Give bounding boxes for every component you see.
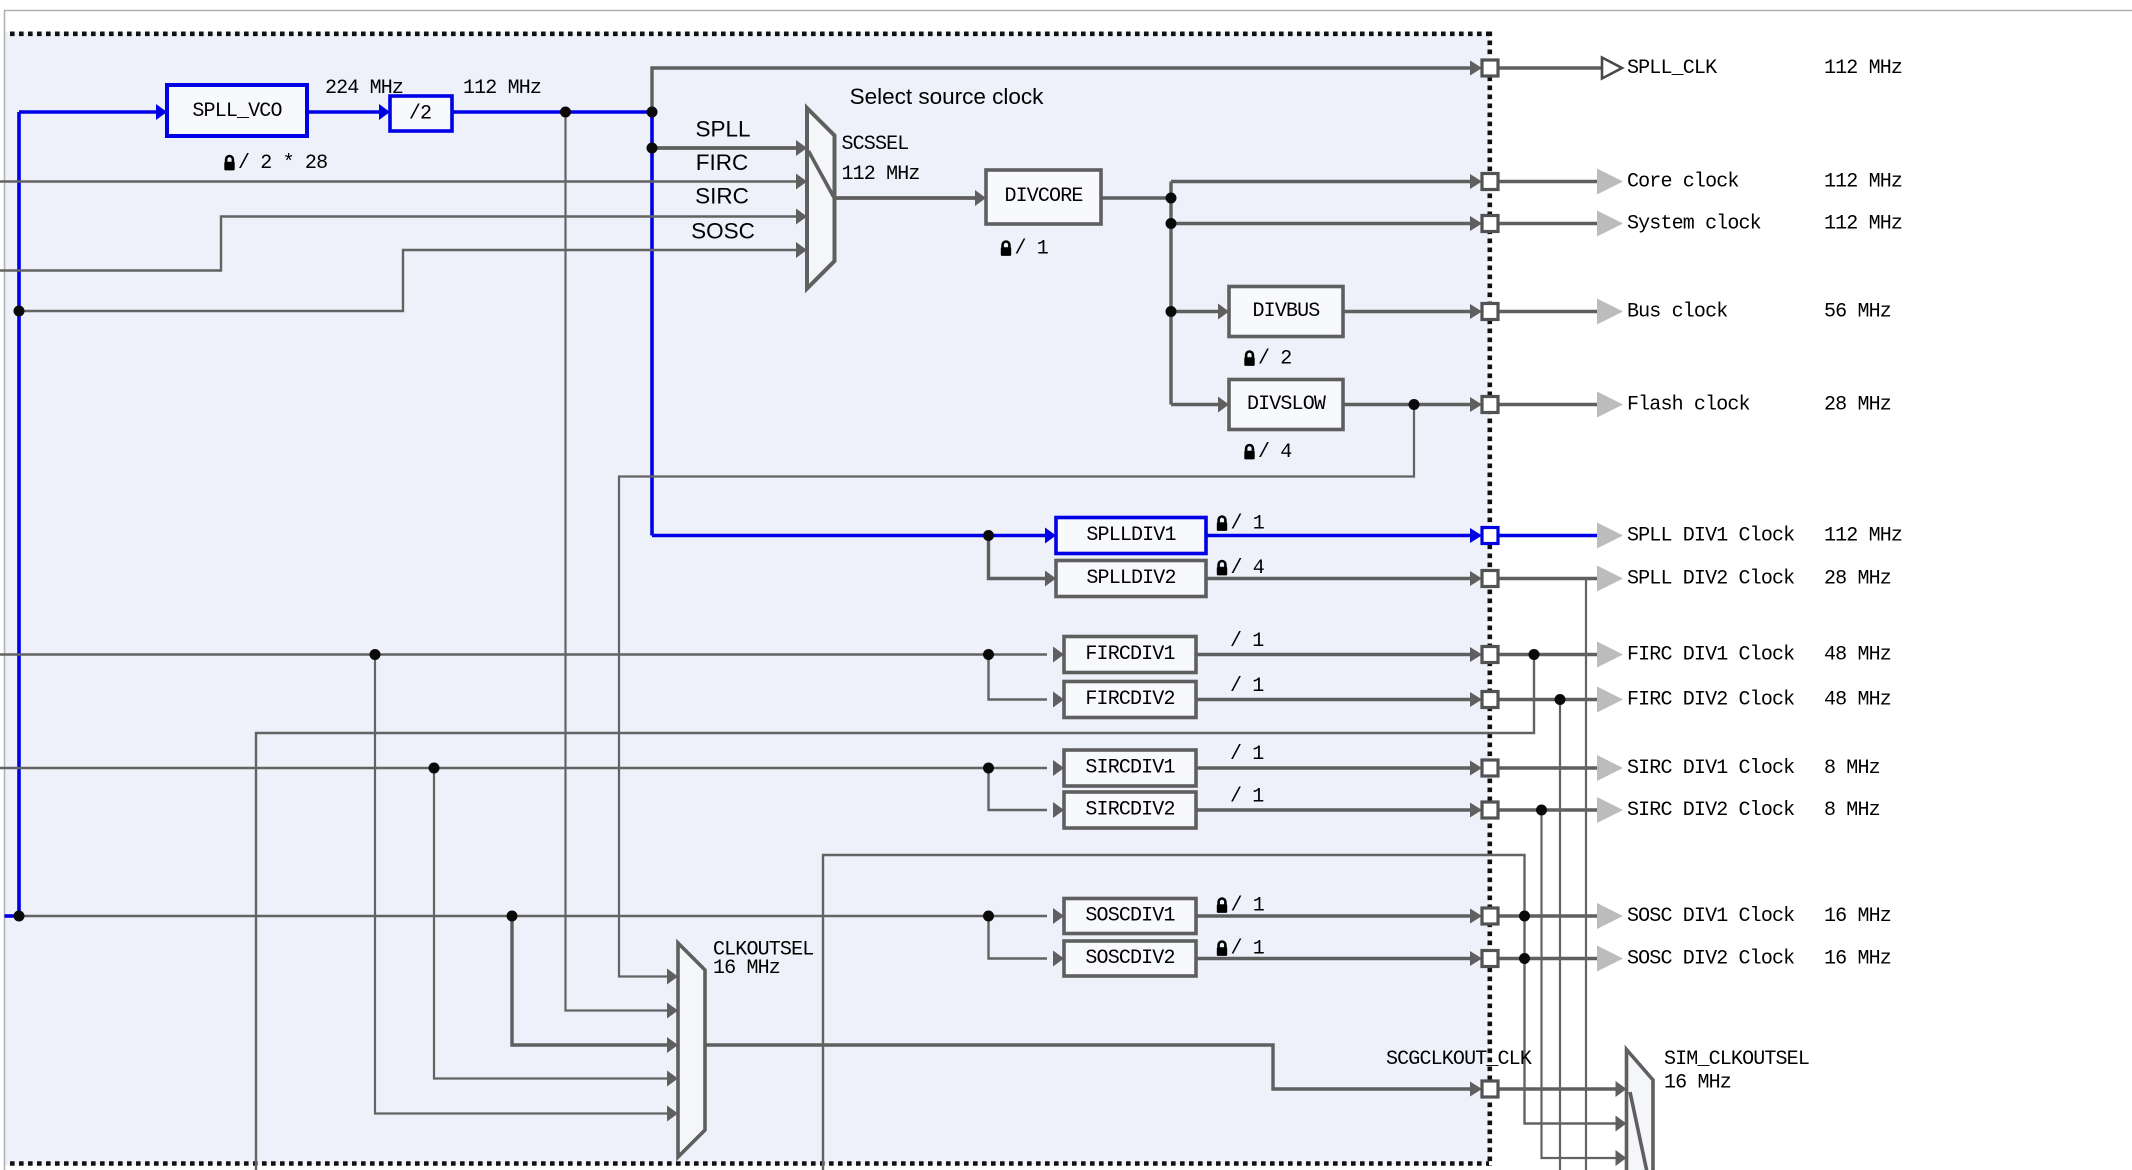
svg-text:/ 4: / 4 (1231, 557, 1264, 580)
svg-text:8 MHz: 8 MHz (1824, 799, 1880, 822)
arrow into SPLLDIV1 (1045, 528, 1056, 544)
junction dot (1534,654.5) (1529, 649, 1540, 660)
lock SOSCDIV1 / 1 (1219, 899, 1226, 905)
arrow SCSSEL input SIRC (796, 209, 807, 225)
svg-text:Flash clock: Flash clock (1627, 394, 1750, 417)
svg-text:112 MHz: 112 MHz (1824, 57, 1902, 80)
wire SPLL DIV2 Clock after boundary (1498, 577, 1598, 580)
arrow output Flash clock (1597, 392, 1623, 418)
arrow into DIVCORE (975, 190, 986, 206)
arrow into SPLLDIV2 (1045, 571, 1056, 587)
wire SPLL_VCO to /2 divider (307, 110, 381, 114)
boundary crossing square FIRC DIV1 Clock (1482, 647, 1498, 663)
svg-text:/ 1: / 1 (1230, 675, 1264, 698)
arrow output SOSC DIV1 Clock (1597, 903, 1623, 929)
wire blue SOSC-to-SPLL_VCO vertical (17, 112, 21, 916)
block SOSCDIV1 (1064, 899, 1196, 934)
junction dot (1524.5,958.5) (1519, 953, 1530, 964)
svg-text:8 MHz: 8 MHz (1824, 757, 1880, 780)
block /2 divider (390, 96, 452, 131)
arrow output SIRC DIV1 Clock (1597, 755, 1623, 781)
boundary crossing square SIRC DIV1 Clock (1482, 760, 1498, 776)
svg-text:SIRCDIV1: SIRCDIV1 (1085, 757, 1175, 780)
wire FIRCDIV1 output (1196, 653, 1471, 656)
svg-text:SOSC DIV2 Clock: SOSC DIV2 Clock (1627, 948, 1794, 971)
arrow into FIRCDIV2 (1053, 692, 1064, 708)
svg-text:Select source clock: Select source clock (850, 84, 1045, 109)
block SOSCDIV2 (1064, 941, 1196, 976)
svg-text:FIRC: FIRC (696, 150, 749, 175)
arrow into DIVBUS (1218, 304, 1229, 320)
mux SCSSEL select diagonal (809, 151, 835, 198)
wire branch to SIRCDIV2 (989, 768, 1048, 810)
arrow output SPLL DIV2 Clock (1597, 566, 1623, 592)
arrow SCSSEL input SOSC (796, 242, 807, 258)
block FIRCDIV2 (1064, 682, 1196, 718)
wire SPLL_CLK tap (652, 68, 1471, 112)
lock DIVSLOW / 4 (1246, 445, 1253, 451)
junction dot (19,311) (14, 306, 25, 317)
arrow into boundary SPLL DIV1 Clock (1470, 528, 1482, 543)
junction dot (512,916) (507, 911, 518, 922)
block SPLLDIV2 (1056, 561, 1206, 597)
arrow output Bus clock (1597, 299, 1623, 325)
arrow SCSSEL input FIRC (796, 174, 807, 190)
wire SPLLDIV2 output (1206, 577, 1471, 580)
block DIVSLOW (1229, 380, 1343, 430)
junction dot (1171,223.5) (1166, 218, 1177, 229)
svg-text:112 MHz: 112 MHz (1824, 171, 1902, 194)
mux CLKOUTSEL (678, 943, 705, 1157)
block DIVCORE (986, 170, 1101, 224)
arrow output SPLL DIV1 Clock (1597, 523, 1623, 549)
svg-text:FIRCDIV1: FIRCDIV1 (1085, 643, 1175, 666)
wire SPLL_CLK after boundary (1498, 66, 1602, 69)
svg-text:/ 2: / 2 (1258, 348, 1291, 371)
junction dot (652,112) (647, 107, 658, 118)
wire SCSSEL output to DIVCORE (835, 196, 977, 200)
arrow into boundary SIRC DIV1 Clock (1470, 761, 1482, 776)
arrow CLKOUTSEL input 1 (667, 969, 678, 985)
junction dot (1171,198) (1166, 193, 1177, 204)
boundary crossing square SPLL_CLK (1482, 60, 1498, 76)
wire SIRC to SCSSEL mux (0, 217, 797, 271)
wire SOSCDIV2 output (1196, 957, 1471, 960)
block DIVBUS (1229, 287, 1343, 337)
arrow into DIVSLOW (1218, 397, 1229, 413)
wire /2 output 112 MHz (452, 110, 652, 114)
wire SOSC feed (19, 915, 1047, 917)
svg-text:16 MHz: 16 MHz (713, 957, 780, 980)
arrow into SIRCDIV2 (1053, 802, 1064, 818)
lock SPLLDIV2 / 4 (1219, 561, 1226, 567)
wire FIRC to SCSSEL mux (0, 180, 797, 182)
wire SPLL to SCSSEL mux (652, 146, 797, 150)
svg-text:112 MHz: 112 MHz (1824, 525, 1902, 548)
window top border (4, 10, 2132, 12)
wire FIRCDIV2 output (1196, 698, 1471, 701)
wire SIRC tap to CLKOUTSEL (434, 768, 669, 1079)
svg-text:SOSC DIV1 Clock: SOSC DIV1 Clock (1627, 905, 1794, 928)
svg-text:SPLLDIV2: SPLLDIV2 (1086, 567, 1175, 590)
arrow output SOSC DIV2 Clock (1597, 946, 1623, 972)
mux SIM_CLKOUTSEL (1627, 1050, 1654, 1170)
wire SPLL_CLK tap to CLKOUTSEL (566, 112, 670, 1011)
boundary crossing square SCGCLKOUT_CLK (1482, 1081, 1498, 1097)
arrow into boundary Core clock (1470, 174, 1482, 189)
arrow into /2 divider (379, 104, 390, 120)
junction dot (434,768) (429, 763, 440, 774)
block SIRCDIV1 (1064, 750, 1196, 786)
lock DIVCORE / 1 (1003, 241, 1010, 247)
wire blue into SPLLDIV1 (652, 534, 1047, 538)
wire into DIVBUS (1171, 310, 1220, 313)
SCG boundary dashed bottom (10, 1161, 1489, 1166)
arrow SPLL_CLK outline (1602, 58, 1622, 79)
svg-text:DIVCORE: DIVCORE (1004, 185, 1082, 208)
arrow into boundary SIRC DIV2 Clock (1470, 803, 1482, 818)
svg-text:FIRC DIV2 Clock: FIRC DIV2 Clock (1627, 689, 1794, 712)
boundary crossing square FIRC DIV2 Clock (1482, 692, 1498, 708)
lock SPLLDIV1 / 1 (1219, 517, 1226, 523)
mux SIM_CLKOUTSEL select diagonal (1630, 1092, 1647, 1170)
svg-text:SPLL DIV1 Clock: SPLL DIV1 Clock (1627, 525, 1794, 548)
SCG boundary dashed right (1488, 32, 1493, 1167)
wire SPLL DIV2 feedback (1585, 579, 1587, 1170)
boundary crossing square System clock (1482, 216, 1498, 232)
boundary crossing square SIRC DIV2 Clock (1482, 802, 1498, 818)
svg-text:48 MHz: 48 MHz (1824, 644, 1891, 667)
arrow SCSSEL input SPLL (796, 140, 807, 156)
wire SCGCLKOUT_CLK to SIM_CLKOUTSEL (1498, 1087, 1616, 1090)
junction dot (988.5,768) (983, 763, 994, 774)
junction dot (988.5,916) (983, 911, 994, 922)
svg-text:/ 1: / 1 (1015, 238, 1049, 261)
boundary crossing square Core clock (1482, 174, 1498, 190)
arrow into boundary Bus clock (1470, 304, 1482, 319)
svg-text:28 MHz: 28 MHz (1824, 568, 1891, 591)
arrow CLKOUTSEL input 5 (667, 1106, 678, 1122)
arrow into boundary SPLL DIV2 Clock (1470, 571, 1482, 586)
wire SOSCDIV1 output (1196, 914, 1471, 917)
svg-text:SOSCDIV1: SOSCDIV1 (1085, 905, 1175, 928)
svg-text:/ 4: / 4 (1258, 441, 1291, 464)
wire blue SPLL vertical to SPLLDIV row (650, 112, 654, 536)
arrow into boundary FIRC DIV1 Clock (1470, 647, 1482, 662)
wire DIVSLOW output / Flash clock (1343, 403, 1471, 406)
svg-text:SIRCDIV2: SIRCDIV2 (1085, 799, 1174, 822)
arrow into boundary System clock (1470, 216, 1482, 231)
mux SCSSEL (807, 108, 835, 289)
boundary crossing square SOSC DIV1 Clock (1482, 908, 1498, 924)
junction dot (1414,404.5) (1409, 399, 1420, 410)
svg-text:SPLL_VCO: SPLL_VCO (192, 100, 281, 123)
wire branch to SPLLDIV2 (989, 536, 1048, 579)
arrow CLKOUTSEL input 3 (667, 1037, 678, 1053)
wire FIRC DIV2 feedback (1559, 700, 1561, 1170)
svg-text:FIRCDIV2: FIRCDIV2 (1085, 688, 1174, 711)
wire SOSC input (blue, into SPLL path) (5, 914, 20, 918)
wire blue into SPLL_VCO (19, 110, 158, 114)
arrow into boundary SOSC DIV2 Clock (1470, 951, 1482, 966)
arrow CLKOUTSEL input 4 (667, 1071, 678, 1087)
junction dot (1524.5,916) (1519, 911, 1530, 922)
svg-text:/ 1: / 1 (1230, 630, 1264, 653)
svg-text:Bus clock: Bus clock (1627, 301, 1727, 324)
arrow SIM_CLKOUTSEL input 3 (1616, 1150, 1627, 1166)
svg-text:16 MHz: 16 MHz (1824, 948, 1891, 971)
wire SIRC DIV2 feedback (1542, 810, 1618, 1158)
arrow into SIRCDIV1 (1053, 760, 1064, 776)
wire SIRCDIV2 output (1196, 808, 1471, 811)
svg-text:SIM_CLKOUTSEL: SIM_CLKOUTSEL (1664, 1048, 1809, 1071)
wire blue SPLL DIV1 Clock after boundary (1498, 534, 1598, 538)
wire SOSC tap to CLKOUTSEL (selected) (512, 916, 669, 1045)
svg-text:/ 1: / 1 (1231, 513, 1265, 536)
lock SOSCDIV2 / 1 (1219, 942, 1226, 948)
junction dot (375,654.5) (370, 649, 381, 660)
junction dot (19,916) (14, 911, 25, 922)
svg-text:56 MHz: 56 MHz (1824, 301, 1891, 324)
svg-text:SPLLDIV1: SPLLDIV1 (1086, 524, 1176, 547)
block SPLLDIV1 (selected) (1056, 518, 1206, 554)
lock PREDIV/MULT / 2 * 28 (226, 156, 233, 162)
wire core bus vertical (1169, 182, 1172, 405)
junction dot (1541.5,810) (1536, 805, 1547, 816)
svg-text:16 MHz: 16 MHz (1824, 905, 1891, 928)
svg-text:/2: /2 (409, 103, 431, 126)
svg-text:SOSC: SOSC (691, 219, 755, 244)
svg-text:Core clock: Core clock (1627, 171, 1739, 194)
arrow into boundary Flash clock (1470, 397, 1482, 412)
arrow into SPLL_VCO (156, 104, 167, 120)
svg-text:SCSSEL: SCSSEL (842, 133, 909, 156)
wire branch to SOSCDIV2 (989, 916, 1048, 959)
wire System clock (1171, 222, 1471, 225)
svg-text:DIVSLOW: DIVSLOW (1247, 393, 1326, 416)
svg-text:112 MHz: 112 MHz (463, 77, 541, 100)
svg-text:System clock: System clock (1627, 213, 1761, 236)
boundary crossing square Flash clock (1482, 397, 1498, 413)
arrow into boundary SOSC DIV1 Clock (1470, 909, 1482, 924)
arrow into boundary FIRC DIV2 Clock (1470, 692, 1482, 707)
junction dot (1560,699.5) (1555, 694, 1566, 705)
SCG boundary dashed top (10, 31, 1489, 36)
arrow SIM_CLKOUTSEL input 1 (1616, 1081, 1627, 1097)
svg-text:28 MHz: 28 MHz (1824, 394, 1891, 417)
svg-text:DIVBUS: DIVBUS (1253, 300, 1321, 323)
svg-text:SIRC: SIRC (695, 184, 749, 209)
svg-text:/ 2 * 28: / 2 * 28 (238, 152, 327, 175)
svg-text:112 MHz: 112 MHz (842, 163, 920, 186)
arrow into FIRCDIV1 (1053, 647, 1064, 663)
arrow into boundary SCGCLKOUT_CLK (1470, 1082, 1482, 1097)
wire DIVCORE output (1101, 196, 1171, 199)
svg-text:/ 1: / 1 (1230, 786, 1264, 809)
arrow output FIRC DIV1 Clock (1597, 642, 1623, 668)
svg-text:SOSCDIV2: SOSCDIV2 (1085, 947, 1174, 970)
arrow into SOSCDIV1 (1053, 908, 1064, 924)
wire CLKOUTSEL output SCGCLKOUT_CLK (705, 1045, 1471, 1089)
wire into DIVSLOW (1171, 403, 1220, 406)
wire FIRC tap to CLKOUTSEL (375, 655, 669, 1114)
block SPLL_VCO (167, 85, 307, 136)
wire FIRC feed (0, 653, 1047, 655)
boundary crossing square SPLL DIV2 Clock (1482, 571, 1498, 587)
svg-text:SIRC DIV1 Clock: SIRC DIV1 Clock (1627, 757, 1794, 780)
arrow output FIRC DIV2 Clock (1597, 687, 1623, 713)
svg-text:SCGCLKOUT_CLK: SCGCLKOUT_CLK (1386, 1048, 1532, 1071)
junction dot (988.5,654.5) (983, 649, 994, 660)
wire SOSC to SCSSEL mux (19, 250, 797, 311)
svg-text:SIRC DIV2 Clock: SIRC DIV2 Clock (1627, 799, 1794, 822)
block FIRCDIV1 (1064, 637, 1196, 673)
window left border (4, 11, 6, 1170)
svg-text:/ 1: / 1 (1231, 895, 1265, 918)
junction dot (652,148) (647, 143, 658, 154)
svg-text:SPLL DIV2 Clock: SPLL DIV2 Clock (1627, 568, 1794, 591)
arrow output System clock (1597, 211, 1623, 237)
wire SIRC feed (0, 767, 1047, 769)
svg-text:112 MHz: 112 MHz (1824, 213, 1902, 236)
boundary crossing square SPLL DIV1 Clock (1482, 528, 1498, 544)
svg-text:SPLL_CLK: SPLL_CLK (1627, 57, 1717, 80)
wire blue SPLLDIV1 output (1206, 534, 1471, 538)
svg-text:16 MHz: 16 MHz (1664, 1072, 1731, 1095)
arrow CLKOUTSEL input 2 (667, 1003, 678, 1019)
wire SOSC DIV feedback net (823, 855, 1617, 1170)
arrow into SOSCDIV2 (1053, 951, 1064, 967)
svg-text:FIRC DIV1 Clock: FIRC DIV1 Clock (1627, 644, 1794, 667)
svg-text:48 MHz: 48 MHz (1824, 689, 1891, 712)
junction dot (988.5,535.5) (983, 530, 994, 541)
arrow SIM_CLKOUTSEL input 2 (1616, 1116, 1627, 1132)
lock DIVBUS / 2 (1246, 352, 1253, 358)
block SIRCDIV2 (1064, 792, 1196, 828)
wire branch to FIRCDIV2 (989, 655, 1048, 700)
arrow output SIRC DIV2 Clock (1597, 797, 1623, 823)
boundary crossing square Bus clock (1482, 304, 1498, 320)
arrow into boundary SPLL_CLK (1470, 61, 1482, 76)
wire SIRCDIV1 output (1196, 766, 1471, 769)
wire DIVBUS output / Bus clock (1343, 310, 1471, 313)
wire Core clock (1171, 180, 1471, 183)
boundary crossing square SOSC DIV2 Clock (1482, 951, 1498, 967)
junction dot (1171,311.5) (1166, 306, 1177, 317)
wire FIRC DIV1 feedback (256, 655, 1534, 1170)
wire slow clock tap to CLKOUTSEL (619, 405, 1414, 977)
arrow output Core clock (1597, 169, 1623, 195)
junction dot (565.5,112) (560, 107, 571, 118)
svg-text:SPLL: SPLL (695, 117, 750, 142)
svg-text:/ 1: / 1 (1231, 938, 1265, 961)
svg-text:/ 1: / 1 (1230, 743, 1264, 766)
